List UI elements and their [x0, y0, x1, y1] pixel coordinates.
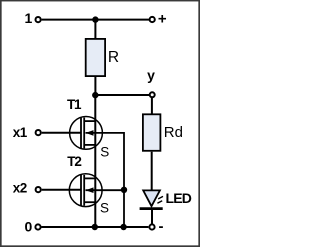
wire bulk column to bottom rail — [123, 190, 125, 227]
svg-text:+: + — [158, 11, 167, 28]
wire Rd to LED — [151, 152, 153, 190]
wire top rail — [42, 19, 149, 21]
junction top rail to R — [92, 16, 98, 22]
svg-text:0: 0 — [25, 219, 33, 235]
terminal y — [150, 92, 155, 97]
svg-text:LED: LED — [166, 190, 192, 206]
svg-text:T2: T2 — [67, 154, 81, 169]
svg-text:R: R — [108, 49, 119, 66]
wire T2 body to junction — [86, 189, 125, 191]
wire R top lead — [94, 20, 96, 39]
terminal x1 — [36, 130, 41, 135]
wire x2 to T2 gate — [42, 189, 82, 191]
wire node y — [95, 94, 149, 96]
junction bottom rail bulk column — [120, 224, 126, 230]
terminal minus — [149, 224, 154, 229]
svg-text:S: S — [100, 200, 109, 215]
svg-text:Rd: Rd — [164, 124, 183, 141]
resistor Rd — [143, 114, 161, 151]
wire T1 body to bulk column — [86, 133, 125, 190]
wire drain-source column T1 T2 — [94, 95, 96, 227]
node y junction — [92, 92, 98, 98]
svg-text:x1: x1 — [13, 125, 28, 140]
svg-text:S: S — [100, 145, 109, 160]
terminal x2 — [36, 187, 41, 192]
terminal + — [150, 17, 155, 22]
LED D1 — [140, 190, 163, 208]
wire y to Rd — [151, 98, 153, 114]
wire R bottom lead — [94, 77, 96, 95]
terminal 0 — [35, 224, 40, 229]
svg-text:1: 1 — [25, 10, 33, 26]
transistor T1 — [70, 116, 103, 149]
svg-text:y: y — [147, 67, 155, 83]
wire bottom rail — [42, 226, 149, 228]
junction bottom rail T2 source — [92, 224, 98, 230]
terminal 1 — [36, 17, 41, 22]
transistor T2 — [69, 174, 102, 207]
wire LED to minus terminal — [151, 209, 153, 224]
junction bulk column T2 body — [121, 187, 127, 193]
svg-text:x2: x2 — [13, 181, 27, 196]
svg-text:T1: T1 — [67, 97, 82, 112]
resistor R — [86, 39, 105, 76]
wire x1 to T1 gate — [42, 132, 82, 134]
svg-text:-: - — [159, 218, 164, 235]
